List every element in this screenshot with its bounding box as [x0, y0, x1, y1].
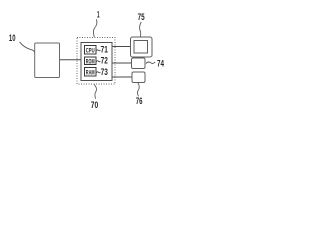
svg-text:72: 72 [101, 55, 108, 66]
box 74 [132, 58, 146, 69]
svg-text:RAM: RAM [86, 69, 95, 76]
display 75 screen [134, 41, 148, 54]
svg-text:1: 1 [97, 9, 100, 19]
tilde 73 [96, 72, 100, 73]
leader line for 70 [94, 84, 97, 99]
leader line for 75 [140, 22, 142, 37]
svg-text:70: 70 [91, 100, 98, 110]
svg-text:76: 76 [136, 96, 143, 106]
CPU box [85, 46, 97, 55]
tilde 74 [146, 62, 155, 63]
svg-text:73: 73 [101, 66, 108, 77]
leader line for 10 [20, 42, 36, 54]
svg-text:75: 75 [138, 12, 145, 22]
RAM box [85, 68, 97, 77]
block 10 (left box) [35, 43, 60, 78]
leader line for 1 [93, 19, 96, 37]
wire controller to display 75 [112, 46, 131, 48]
svg-text:ROM: ROM [86, 58, 95, 65]
svg-text:74: 74 [157, 58, 164, 68]
svg-text:10: 10 [9, 33, 16, 43]
tilde 72 [96, 61, 100, 62]
ROM box [85, 57, 97, 65]
display 75 outer [131, 37, 153, 57]
dashed boundary box 1 [77, 38, 115, 85]
wire controller to box 74 [112, 62, 132, 64]
wire controller to box 76 [112, 76, 132, 78]
tilde 71 [96, 50, 100, 51]
svg-text:71: 71 [101, 44, 108, 55]
leader line for 76 [137, 83, 139, 97]
box 76 [132, 72, 145, 83]
wire left box to controller [60, 59, 82, 61]
svg-text:CPU: CPU [86, 47, 95, 54]
controller box 70 [81, 43, 112, 81]
